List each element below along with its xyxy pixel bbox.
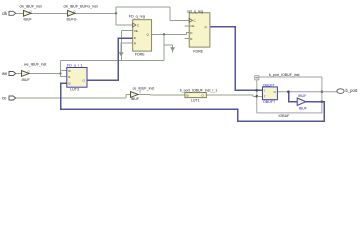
svg-text:IOBUF: IOBUF [279,114,291,118]
svg-text:FD_q_i_1: FD_q_i_1 [67,64,83,68]
svg-text:OBUFT: OBUFT [263,83,276,87]
svg-text:set_q_reg: set_q_reg [187,9,203,13]
svg-text:IBUF: IBUF [298,94,307,98]
svg-text:b_port: b_port [346,88,359,93]
svg-text:we_IBUF_inst: we_IBUF_inst [24,63,46,67]
svg-text:I: I [264,89,265,93]
svg-text:FDRE: FDRE [135,52,145,56]
svg-text:I2: I2 [68,82,71,86]
svg-text:OBUFT: OBUFT [263,100,276,104]
svg-text:BUFG: BUFG [67,18,77,22]
svg-text:T: T [264,95,266,99]
svg-text:we: we [2,71,8,76]
svg-text:clk_IBUF_BUFG_inst: clk_IBUF_BUFG_inst [64,5,98,9]
svg-text:clk_IBUF_inst: clk_IBUF_inst [20,5,42,9]
svg-text:CE: CE [134,29,138,33]
svg-text:I0: I0 [68,69,71,73]
svg-text:I0: I0 [186,94,189,98]
svg-text:LUT3: LUT3 [70,88,79,92]
svg-text:FDRE: FDRE [193,49,203,53]
svg-text:I1: I1 [68,75,71,79]
svg-text:IBUF: IBUF [22,78,31,82]
svg-text:FD_q_reg: FD_q_reg [129,14,145,18]
svg-text:LUT1: LUT1 [191,98,200,102]
svg-text:ce_IBUF_inst: ce_IBUF_inst [133,86,155,90]
svg-text:IBUF: IBUF [131,97,140,101]
svg-text:IBUF: IBUF [299,106,308,110]
svg-text:clk: clk [2,11,8,16]
svg-text:b_port_IOBUF_inst_i_1: b_port_IOBUF_inst_i_1 [180,88,218,92]
svg-text:IBUF: IBUF [24,18,33,22]
svg-text:ce: ce [2,96,7,101]
svg-text:CE: CE [190,24,194,28]
svg-text:b_port_IOBUF_inst: b_port_IOBUF_inst [269,73,300,77]
